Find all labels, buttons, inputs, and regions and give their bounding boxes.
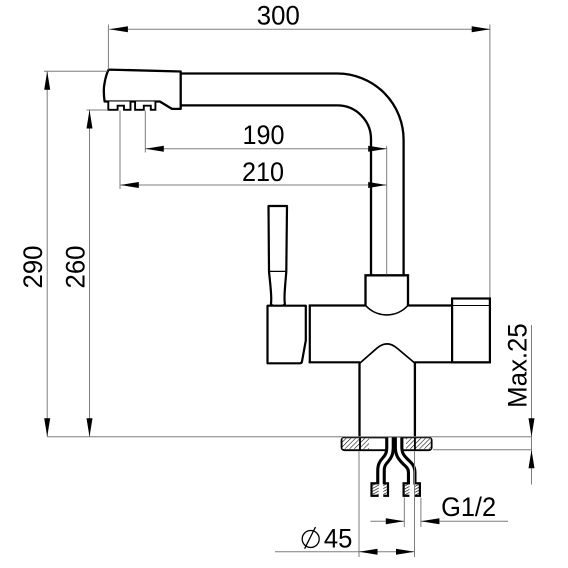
handle lever joint line bbox=[269, 270, 286, 272]
dimension 260 top tick bbox=[87, 109, 109, 111]
left connector channel bbox=[379, 485, 384, 498]
svg-text:G1/2: G1/2 bbox=[441, 492, 496, 522]
dimension G1/2 right arrow bbox=[421, 518, 440, 524]
dimension 300 extension line right bbox=[489, 25, 491, 298]
dimension 260 top arrow bbox=[87, 110, 93, 129]
countertop line bbox=[47, 436, 531, 438]
dimension G1/2 line right bbox=[421, 520, 508, 522]
body bottom line right of pipe bbox=[415, 361, 491, 363]
dimension G1/2 line left bbox=[370, 520, 404, 522]
left G1/2 connector bbox=[372, 483, 389, 496]
dimension 210 left arrow bbox=[120, 182, 139, 188]
aerator tab 2 bbox=[135, 102, 155, 110]
dimension 190 line bbox=[145, 148, 386, 150]
left hose bore bbox=[381, 438, 390, 497]
mounting plate bbox=[342, 437, 432, 450]
down pipe right edge bbox=[414, 362, 416, 437]
riser mount block bbox=[366, 275, 409, 305]
diameter symbol bbox=[302, 527, 319, 549]
svg-text:260: 260 bbox=[61, 246, 91, 289]
dimension 190 right arrow bbox=[368, 146, 387, 152]
dimension 300 left arrow bbox=[109, 26, 128, 32]
dimension d45 line bbox=[275, 551, 415, 553]
handle lever bbox=[269, 206, 288, 307]
dimension 290 line bbox=[46, 71, 48, 437]
body bottom line left of pipe bbox=[309, 361, 360, 363]
dimension 190/210 right extension line bbox=[386, 146, 388, 275]
dome under body bbox=[360, 344, 415, 363]
dimension Max.25 upper arrow bbox=[529, 418, 535, 437]
svg-text:Max.25: Max.25 bbox=[503, 323, 533, 408]
plate divider line right bbox=[414, 437, 416, 449]
dimension 300 right arrow bbox=[472, 26, 491, 32]
svg-text:45: 45 bbox=[324, 524, 353, 554]
right connection block bbox=[452, 299, 490, 363]
countertop bottom line bbox=[433, 449, 532, 451]
aerator tab 1 bbox=[108, 102, 130, 110]
svg-text:300: 300 bbox=[257, 1, 300, 31]
plate hatch right bbox=[406, 438, 431, 449]
dimension Max.25 line bbox=[531, 325, 533, 485]
dimension G1/2 left arrow bbox=[386, 518, 405, 524]
dimension 260 line bbox=[89, 110, 91, 437]
dimension G1/2 extension line right bbox=[420, 498, 422, 528]
spout tube inner edge bbox=[181, 105, 372, 275]
dimension 290 top arrow bbox=[44, 71, 50, 90]
dimension 210 line bbox=[120, 184, 386, 186]
left hose bbox=[381, 438, 390, 485]
dimension 190 extension line bbox=[144, 111, 146, 153]
dimension d45 right arrow bbox=[396, 549, 415, 555]
right hose bbox=[399, 438, 412, 485]
dimension G1/2 extension line left bbox=[403, 498, 405, 528]
spout head bbox=[104, 70, 181, 109]
handle base bbox=[268, 306, 306, 364]
down pipe left edge bbox=[358, 362, 360, 437]
dimension 300 extension line left bbox=[107, 25, 109, 70]
plate divider line left bbox=[359, 437, 361, 449]
dimension 190 left arrow bbox=[145, 146, 164, 152]
dimension Max.25 lower arrow bbox=[529, 450, 535, 469]
dimension 210 extension line bbox=[119, 111, 121, 190]
dimension 290 bottom arrow bbox=[44, 418, 50, 437]
dimension 290 top tick bbox=[44, 70, 108, 72]
right G1/2 connector bbox=[404, 483, 420, 496]
body left edge bbox=[309, 306, 311, 363]
dimension 300 line bbox=[109, 28, 490, 30]
right connector channel bbox=[409, 485, 414, 498]
dimension 210 right arrow bbox=[368, 182, 387, 188]
body top line right of riser bbox=[408, 304, 453, 306]
spout tube outer edge bbox=[181, 74, 404, 276]
riser mount bottom arc bbox=[366, 305, 409, 315]
dimension d45 left arrow bbox=[359, 549, 378, 555]
dimension 260 bottom arrow bbox=[87, 418, 93, 437]
plate hatch left bbox=[343, 438, 370, 449]
right block inner line bbox=[452, 305, 490, 307]
svg-text:290: 290 bbox=[18, 246, 48, 289]
dimension d45 extension line right bbox=[414, 452, 416, 558]
svg-text:190: 190 bbox=[243, 120, 285, 150]
dimension d45 extension line left bbox=[358, 452, 360, 558]
right hose bore bbox=[399, 438, 412, 497]
svg-text:210: 210 bbox=[242, 157, 284, 187]
body top line left of riser bbox=[309, 304, 366, 306]
